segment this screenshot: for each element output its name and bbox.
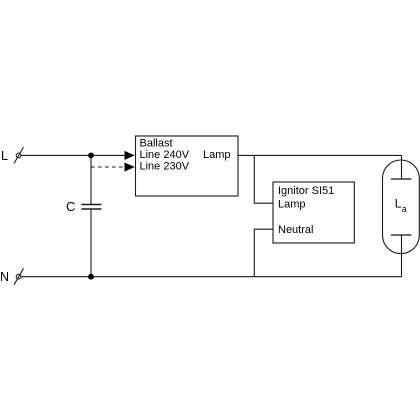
svg-text:a: a bbox=[402, 204, 407, 214]
svg-text:Ignitor SI51: Ignitor SI51 bbox=[278, 185, 334, 197]
svg-text:L: L bbox=[1, 149, 8, 163]
svg-text:Lamp: Lamp bbox=[278, 199, 306, 211]
svg-text:C: C bbox=[66, 199, 75, 214]
svg-text:N: N bbox=[0, 270, 9, 284]
svg-text:L: L bbox=[395, 197, 402, 211]
svg-text:Line 230V: Line 230V bbox=[140, 161, 190, 173]
svg-text:Ballast: Ballast bbox=[140, 138, 173, 150]
svg-text:Line 240V: Line 240V bbox=[140, 149, 190, 161]
svg-text:Lamp: Lamp bbox=[203, 149, 231, 161]
svg-text:Neutral: Neutral bbox=[278, 224, 313, 236]
